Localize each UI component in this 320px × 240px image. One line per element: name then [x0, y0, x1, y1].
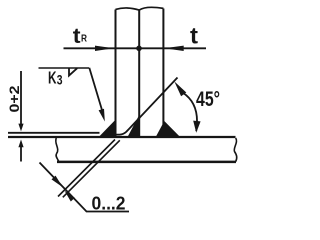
weld symbol leader line	[89, 68, 102, 110]
svg-text:45°: 45°	[196, 88, 220, 111]
vertical gap dimension lower shaft	[20, 147, 22, 162]
fillet weld symbol triangle	[69, 68, 77, 75]
web root edge with 45-degree bevel line	[116, 78, 178, 135]
svg-text:K: K	[48, 68, 57, 88]
gap dimension lower arrowhead	[65, 191, 75, 202]
vertical gap dimension down arrowhead	[18, 124, 23, 132]
flange top surface line	[8, 136, 236, 138]
weld fill in bevel groove (black)	[128, 114, 141, 138]
arc bottom arrowhead	[193, 121, 200, 133]
web plate middle line	[138, 11, 140, 137]
weld symbol reference line	[39, 67, 90, 69]
svg-text:0...2: 0...2	[92, 193, 126, 213]
dimension arrow left-pointing (t)	[164, 46, 184, 51]
vertical gap dimension up arrowhead	[18, 140, 23, 148]
root gap line (web bottom extended left)	[8, 132, 100, 134]
svg-text:R: R	[81, 34, 88, 45]
flange bottom line	[57, 161, 236, 164]
right fillet weld (black)	[156, 121, 181, 137]
weld symbol leader arrowhead	[99, 109, 105, 122]
web plate right line	[162, 9, 164, 137]
vertical gap dimension upper shaft	[20, 71, 22, 125]
svg-text:3: 3	[57, 72, 63, 88]
thickness dimension line	[64, 47, 207, 49]
root gap extension line 2	[63, 140, 120, 197]
svg-text:0+2: 0+2	[6, 85, 22, 112]
svg-text:t: t	[73, 24, 81, 48]
svg-text:t: t	[190, 22, 198, 48]
45-degree angle arc	[183, 93, 198, 132]
flange right break line	[234, 138, 237, 162]
flange left break line	[56, 138, 59, 162]
gap dimension leader line	[40, 163, 130, 212]
root gap extension line 1	[58, 140, 115, 197]
gap dimension upper arrowhead	[52, 176, 63, 188]
dimension arrow right-pointing (tR)	[95, 46, 114, 51]
web plate left line	[115, 10, 117, 137]
node dot on middle line	[136, 46, 142, 52]
web top break line	[116, 7, 164, 10]
arc top arrowhead	[174, 81, 186, 96]
left fillet weld (black)	[99, 120, 116, 137]
